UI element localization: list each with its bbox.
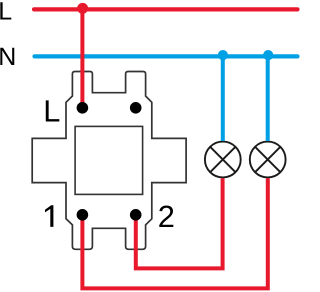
node N-E2 junction (blue dot) <box>263 50 273 60</box>
switch S1 rocker square <box>75 126 143 194</box>
wire L feed to switch (red drop) <box>80 9 84 107</box>
wire lamp E1 feed (blue drop) <box>221 56 225 141</box>
terminal 2 dot <box>130 209 142 221</box>
terminal L dot <box>77 102 89 114</box>
lamp E1 <box>205 142 241 178</box>
wire switch terminal 2 to lamp E1 (red) <box>136 178 223 268</box>
svg-text:L: L <box>0 0 12 26</box>
svg-text:N: N <box>0 43 16 71</box>
wire L rail (red) <box>34 7 298 11</box>
node N-E1 junction (blue dot) <box>218 50 228 60</box>
terminal top-right dot <box>130 102 142 114</box>
label 1 (switch terminal) <box>45 205 53 227</box>
lamp E2 <box>250 142 286 178</box>
switch S1 body outline <box>32 72 186 250</box>
wire switch terminal 1 to lamp E2 (red) <box>82 178 267 288</box>
node L junction (red dot) <box>77 3 88 14</box>
wire N rail (blue) <box>35 54 298 58</box>
svg-text:L: L <box>43 94 60 129</box>
terminal 1 dot <box>77 209 89 221</box>
svg-text:2: 2 <box>158 199 175 234</box>
wire lamp E2 feed (blue drop) <box>266 56 270 141</box>
